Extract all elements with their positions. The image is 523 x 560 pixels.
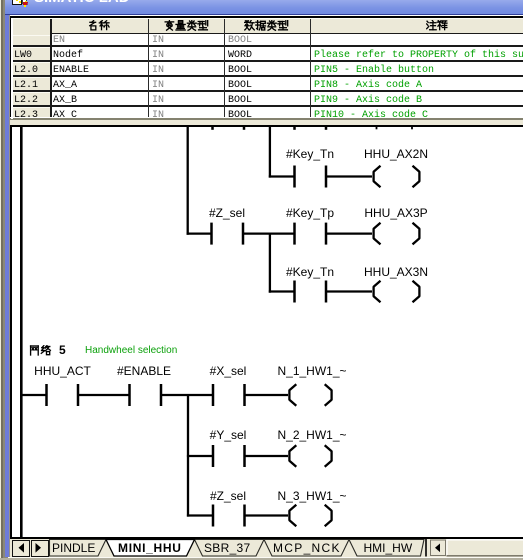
contact HHU_ACT (normally open) [47, 384, 79, 406]
cell 3D highlights [11, 18, 523, 19]
operand label #Key_Tp (contact) [286, 207, 334, 219]
network comment: Handwheel selection [85, 346, 177, 356]
contact #Key_Tp (normally open) [295, 223, 327, 245]
contact #X_sel (normally open) [213, 384, 245, 406]
row borders [11, 45, 523, 47]
wire: horizontal, elbow to contact #Z_sel (network 5) [187, 514, 213, 516]
operand label #Key_Tn (contact, rung HHU_AX2N) [286, 148, 334, 160]
wire: contact #Key_Tn to coil HHU_AX2N [326, 175, 372, 177]
wire: contact #Key_Tp to coil HHU_AX3P [326, 232, 372, 234]
wire: contact #Key_Tn to coil HHU_AX3N [326, 290, 372, 292]
wire: contact #ENABLE to contact #X_sel, with junction node to OR-branch [161, 394, 213, 396]
bottom strip below tabs [8, 557, 523, 558]
row header column bg [11, 18, 50, 119]
coil HHU_AX3N (output) [374, 281, 420, 303]
MDI child window blue left border [5, 0, 9, 557]
column borders [50, 18, 52, 119]
operand label N_3_HW1_~ (coil) [277, 490, 346, 502]
scrollbar left arrow button [431, 540, 446, 556]
operand label HHU_AX3P (coil) [364, 207, 427, 219]
table text [14, 33, 38, 123]
wire: horizontal, elbow to contact #Key_Tn (rung HHU_AX3N) [269, 290, 295, 292]
wire: vertical OR-branch from junction after #ENABLE down to #Y_sel and #Z_sel rungs [187, 395, 189, 517]
operand label HHU_AX3N (coil) [364, 266, 428, 278]
contact #Y_sel (normally open) [213, 445, 245, 467]
wire: contact HHU_ACT to contact #ENABLE [78, 394, 130, 396]
scroll buttons [12, 540, 30, 557]
operand label HHU_ACT (contact) [34, 365, 91, 377]
wire: contact #Z_sel to contact #Key_Tp, with junction to OR-branch [243, 232, 295, 234]
operand label N_2_HW1_~ (coil) [277, 429, 346, 441]
header row bg [11, 18, 523, 34]
wire: contact #Z_sel to coil N_3_HW1_~ [245, 514, 289, 516]
wire: vertical branch feeding #Z_sel rung from hidden rung above [187, 127, 189, 235]
header labels (CJK drawn as SVG) [88, 20, 110, 32]
wire: horizontal, elbow to contact #Z_sel [187, 232, 212, 234]
title text [34, 0, 130, 6]
wire: vertical OR-branch from #Z_sel rung down to HHU_AX3N rung [269, 233, 271, 293]
wire: power rail to contact HHU_ACT [21, 394, 47, 396]
operand label #Z_sel (contact, network 5) [210, 490, 246, 502]
operand label N_1_HW1_~ (coil) [277, 365, 346, 377]
splitter [10, 117, 523, 118]
operand label #ENABLE (contact) [117, 365, 171, 377]
cut-off coil (hidden rung of network 4) - bottom tips of parentheses [377, 127, 413, 130]
operand label HHU_AX2N (coil) [364, 148, 428, 160]
scrollbar thumb [447, 540, 523, 557]
wire: horizontal, elbow to contact #Y_sel [187, 455, 213, 457]
coil HHU_AX3P (output) [374, 223, 420, 245]
network header: 网络 5 (Network 5) [29, 345, 66, 357]
operand label #Z_sel (contact) [209, 207, 245, 219]
wire: horizontal, elbow to contact #Key_Tn (rung HHU_AX2N) [269, 175, 295, 177]
contact #ENABLE (normally open) [130, 384, 162, 406]
coil N_2_HW1_~ (output) [289, 445, 331, 467]
operand label #Y_sel (contact) [210, 429, 247, 441]
operand label #Key_Tn (contact, rung HHU_AX3N) [286, 266, 334, 278]
title icon [12, 0, 22, 5]
tabs [50, 540, 425, 557]
window left frame edge [0, 0, 1, 560]
wire: vertical branch feeding #Key_Tn/HHU_AX2N rung from hidden rung above [269, 127, 271, 178]
wire: contact #X_sel to coil N_1_HW1_~ [245, 394, 289, 396]
left power rail of ladder (network 5) [20, 127, 23, 538]
wire: contact #Y_sel to coil N_2_HW1_~ [245, 455, 289, 457]
cut-off contact (hidden rung of network 4, column 3) - bottom stubs of bars [213, 127, 245, 130]
cut-off contact (hidden rung of network 4, column 4) - bottom stubs of bars [295, 127, 327, 130]
contact #Z_sel (normally open) [212, 223, 244, 245]
tab labels [52, 542, 95, 555]
coil N_3_HW1_~ (output) [289, 505, 331, 527]
contact #Key_Tn (normally open, rung HHU_AX3N) [295, 281, 327, 303]
contact #Key_Tn (normally open, rung HHU_AX2N) [295, 166, 327, 188]
title bar [5, 0, 523, 15]
coil HHU_AX2N (output) [374, 166, 420, 188]
contact #Z_sel (normally open, network 5) [213, 505, 245, 527]
coil N_1_HW1_~ (output) [289, 384, 331, 406]
operand label #X_sel (contact) [210, 365, 247, 377]
